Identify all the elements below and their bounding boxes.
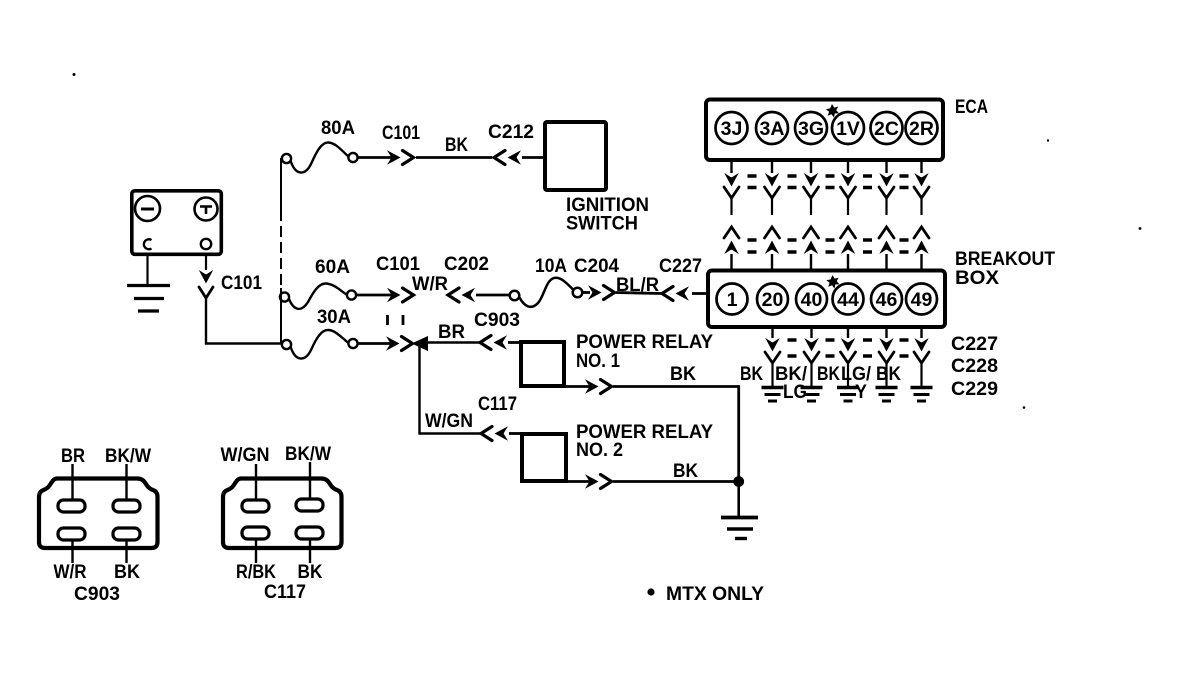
connector C117 (inline)	[481, 426, 508, 440]
svg-text:2C: 2C	[874, 118, 899, 140]
pin 3J	[716, 112, 748, 144]
pin 46	[871, 284, 902, 315]
wire into relay 1	[508, 341, 522, 344]
fuse link 80A	[282, 142, 358, 172]
svg-text:BR: BR	[438, 322, 465, 343]
wire into ignition switch	[522, 156, 545, 159]
svg-text:3A: 3A	[760, 118, 785, 140]
connector C101 (80A row)	[387, 150, 414, 164]
C903 wire W/R	[71, 540, 73, 563]
C117 wire BK	[309, 539, 311, 563]
svg-text:BK: BK	[740, 364, 763, 385]
wire 49 down	[914, 329, 929, 386]
svg-text:49: 49	[911, 289, 933, 311]
wire 3J-1 bottom	[724, 227, 739, 269]
wire 3A-20 bottom	[765, 227, 780, 269]
wire from relay 2	[566, 480, 590, 483]
svg-text:BK: BK	[670, 364, 696, 385]
C117 pin 2	[296, 499, 323, 511]
C903 wire BR	[71, 464, 73, 500]
pin 3G	[795, 112, 827, 144]
wire	[583, 291, 590, 294]
dashed connector line row E	[788, 338, 909, 341]
svg-text:C212: C212	[488, 122, 534, 143]
connector C903 (inline)	[480, 335, 507, 349]
pin 2R	[906, 112, 938, 144]
wire	[358, 342, 391, 345]
wire battery positive down	[205, 256, 207, 270]
ground G2	[721, 518, 758, 539]
C117 pin 3	[242, 527, 269, 539]
connector C903 body	[39, 479, 158, 549]
ground (pin46 wire)	[876, 388, 898, 402]
C117 wire W/GN	[255, 464, 257, 500]
svg-text:C227: C227	[951, 334, 998, 355]
svg-text:MTX ONLY: MTX ONLY	[666, 584, 764, 605]
svg-text:W/GN: W/GN	[221, 445, 270, 466]
power relay no.2 box	[522, 434, 566, 481]
svg-text:30A: 30A	[317, 307, 351, 328]
wire BR	[426, 341, 479, 343]
wire 1V-44 top	[841, 162, 856, 215]
wire 2R-49 top	[914, 162, 929, 215]
wire to connector	[358, 156, 392, 159]
battery B1	[132, 191, 222, 255]
C117 wire R/BK	[255, 539, 257, 563]
ground (pin44 wire)	[837, 388, 859, 402]
wire 2C-46 top	[879, 162, 894, 215]
svg-text:BR: BR	[61, 446, 85, 467]
wire BK	[416, 156, 492, 159]
svg-text:20: 20	[762, 289, 784, 311]
scan speck	[1047, 139, 1049, 141]
wire battery negative to ground	[146, 256, 148, 284]
connector C212	[494, 150, 521, 164]
svg-text:Y: Y	[855, 382, 867, 403]
wire 3G-40 bottom	[804, 227, 819, 269]
wire to ground	[737, 482, 740, 517]
wire 2R-49 bottom	[914, 227, 929, 269]
C117 pin 1	[242, 500, 269, 512]
svg-text:C117: C117	[264, 582, 306, 603]
svg-text:SWITCH: SWITCH	[566, 214, 638, 235]
svg-text:NO. 1: NO. 1	[576, 351, 620, 372]
svg-text:46: 46	[876, 289, 898, 311]
svg-text:BREAKOUT: BREAKOUT	[955, 249, 1055, 270]
svg-text:W/R: W/R	[54, 562, 87, 583]
wire into relay 2	[509, 432, 523, 435]
svg-text:BK/W: BK/W	[285, 444, 331, 465]
wire to 10A fuse	[476, 294, 510, 297]
ground (pin40 wire)	[801, 388, 823, 402]
wire 3G-40 top	[804, 162, 819, 215]
wire 3A-20 top	[765, 162, 780, 215]
svg-text:BK/W: BK/W	[105, 446, 151, 467]
svg-text:80A: 80A	[321, 118, 355, 139]
C903 pin 4	[113, 528, 140, 540]
svg-text:W/R: W/R	[412, 274, 448, 295]
C903 wire BK	[125, 540, 127, 563]
wire 2C-46 bottom	[879, 227, 894, 269]
asterisk MTX (ECA)	[826, 104, 839, 118]
C903 pin 3	[58, 528, 85, 540]
svg-text:BK: BK	[876, 364, 901, 385]
svg-text:C204: C204	[574, 256, 619, 277]
pin 49	[906, 284, 937, 315]
svg-text:POWER RELAY: POWER RELAY	[576, 332, 713, 353]
wire from relay 1	[564, 385, 590, 388]
svg-text:1: 1	[727, 289, 738, 311]
svg-text:C101: C101	[382, 123, 420, 144]
svg-text:2R: 2R	[909, 118, 934, 140]
wire 46 down	[879, 329, 894, 386]
wire 40 down	[804, 329, 819, 386]
svg-text:NO. 2: NO. 2	[576, 440, 623, 461]
svg-text:LG: LG	[783, 382, 807, 403]
connector (30A row) arrow	[386, 336, 413, 350]
scan speck	[1023, 406, 1026, 409]
C903 pin 1	[58, 500, 85, 512]
svg-text:C101: C101	[376, 254, 420, 275]
svg-text:C903: C903	[74, 584, 120, 605]
C903 wire BK/W	[125, 464, 127, 500]
svg-text:BK: BK	[298, 562, 323, 583]
wire 1V-44 bottom	[841, 227, 856, 269]
wire 3J-1 top	[724, 162, 739, 215]
svg-text:C229: C229	[951, 379, 998, 400]
scan speck	[1139, 227, 1142, 230]
svg-text:40: 40	[801, 289, 823, 311]
C117 pin 4	[296, 527, 323, 539]
svg-text:C903: C903	[474, 310, 520, 331]
fuse link 60A	[280, 284, 356, 309]
fuse link 30A	[282, 330, 358, 359]
svg-text:BK: BK	[114, 562, 140, 583]
svg-text:44: 44	[837, 289, 859, 311]
ground (pin20 wire)	[762, 388, 784, 402]
pin 20	[757, 284, 788, 315]
ECA box U1	[706, 100, 943, 161]
connector relay1 output	[585, 379, 612, 393]
wire battery to bus	[206, 298, 282, 344]
pin 1V	[832, 112, 864, 144]
connector C204	[588, 285, 615, 299]
dashed connector line row D	[748, 250, 909, 253]
connector C202	[448, 288, 475, 302]
svg-text:C117: C117	[478, 394, 517, 415]
connector C227 (wire side)	[662, 286, 689, 300]
connector C117 body	[223, 479, 342, 549]
pin 3A	[756, 112, 788, 144]
tick marks	[388, 315, 404, 325]
ignition switch box	[545, 122, 606, 190]
svg-text:3G: 3G	[798, 118, 824, 140]
power relay no.1 box	[521, 342, 564, 386]
svg-text:3J: 3J	[721, 118, 743, 140]
svg-text:1V: 1V	[836, 118, 860, 140]
breakout box	[708, 271, 945, 328]
svg-text:R/BK: R/BK	[236, 562, 276, 583]
junction node	[733, 476, 744, 487]
connector relay2 output	[585, 474, 612, 488]
drop wire from junction	[420, 343, 482, 434]
fuse link 10A	[510, 278, 583, 307]
svg-text:BK: BK	[445, 135, 468, 156]
svg-text:ECA: ECA	[955, 97, 988, 118]
pin 44	[833, 284, 864, 315]
dashed connector line row A	[748, 174, 909, 177]
scan speck	[73, 73, 76, 76]
dashed connector line row B	[748, 186, 909, 189]
connector C101 (battery feed)	[199, 270, 213, 298]
ground G1	[127, 286, 170, 312]
svg-text:C202: C202	[444, 254, 489, 275]
svg-text:C227: C227	[659, 256, 702, 277]
wire	[356, 294, 392, 297]
wire 44 down	[841, 329, 856, 386]
svg-text:C228: C228	[951, 356, 998, 377]
connector C101 (60A row)	[387, 288, 414, 302]
bus wire vertical	[280, 158, 282, 210]
dashed connector line row C	[748, 238, 909, 241]
svg-text:W/GN: W/GN	[425, 411, 473, 432]
svg-text:BK: BK	[817, 364, 840, 385]
pin 40	[796, 284, 827, 315]
svg-text:BK: BK	[673, 461, 698, 482]
svg-text:C101: C101	[221, 273, 262, 294]
C117 wire BK/W	[309, 462, 311, 499]
pin 1	[717, 284, 748, 315]
wire BL/R	[616, 293, 662, 294]
asterisk MTX note	[647, 588, 654, 595]
svg-text:BOX: BOX	[955, 268, 999, 289]
wire BK relay 1	[613, 387, 739, 483]
wire into breakout box	[692, 292, 708, 295]
asterisk MTX (breakout)	[826, 275, 839, 289]
C903 pin 2	[113, 500, 140, 512]
ground (pin49 wire)	[911, 388, 933, 402]
svg-text:10A: 10A	[535, 256, 567, 277]
junction arrow into node	[412, 336, 429, 351]
pin 2C	[871, 112, 903, 144]
wire BK relay 2	[613, 480, 739, 483]
dashed connector line row F	[788, 354, 909, 357]
svg-text:60A: 60A	[315, 257, 350, 278]
wire 20 down	[765, 329, 780, 386]
